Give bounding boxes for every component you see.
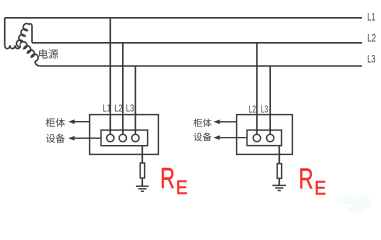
cabinet box (right outer) (237, 115, 293, 155)
terminal L2 right box (253, 134, 260, 141)
wire L3 drop to right box (269, 66, 271, 134)
svg-text:L3: L3 (261, 104, 268, 115)
terminal L2 left box (119, 134, 126, 141)
transformer winding horizontal (5, 45, 21, 49)
faint watermark smudge (335, 196, 372, 213)
wire resistor to ground right (278, 178, 280, 185)
svg-text:L2: L2 (249, 104, 256, 115)
arrowhead equipment right (214, 135, 220, 140)
equipment box (left inner) (101, 130, 148, 146)
arrow equipment label left (73, 137, 101, 139)
svg-text:E: E (176, 178, 188, 199)
resistor RE left (140, 163, 144, 178)
svg-text:L1: L1 (103, 104, 112, 115)
arrowhead cabinet right (214, 120, 220, 125)
transformer winding lower diagonal (20, 42, 38, 61)
terminal L3 left box (132, 134, 139, 141)
svg-text:L3: L3 (126, 104, 135, 115)
label guiti right (cabinet) (193, 118, 211, 127)
svg-text:R: R (160, 163, 175, 195)
label shebei right (equipment) (194, 132, 212, 141)
wire resistor to ground left (141, 178, 143, 186)
ground left (136, 186, 149, 191)
terminal L1 left box (107, 134, 114, 141)
wire L1 drop to left box (109, 18, 111, 135)
arrow cabinet label left (73, 121, 90, 123)
label guiti left (cabinet) (46, 118, 65, 127)
wire winding to L3 (35, 61, 40, 66)
wire winding to L2 (30, 24, 33, 43)
arrow equipment label right (219, 137, 247, 139)
svg-text:L2: L2 (114, 104, 123, 115)
wire L3 drop to left box (134, 66, 136, 134)
transformer winding upper diagonal (17, 24, 30, 48)
ground right (272, 185, 286, 190)
terminal L3 right box (267, 134, 274, 141)
svg-text:L3: L3 (367, 54, 375, 66)
arrowhead cabinet left (68, 119, 74, 124)
wire L1 bus (5, 17, 362, 19)
svg-text:L1: L1 (367, 11, 375, 23)
equipment box (right inner) (247, 130, 282, 146)
arrow cabinet label right (219, 121, 237, 123)
wire L2 drop to right box (256, 43, 258, 135)
arrowhead equipment left (68, 136, 74, 141)
wire L3 bus (40, 65, 362, 67)
label shebei left (equipment) (46, 134, 65, 143)
svg-text:L2: L2 (367, 33, 376, 45)
wire L2 bus (32, 42, 362, 44)
wire left earth lead (141, 146, 143, 163)
wire L2 drop to left box (122, 43, 124, 135)
cabinet box (left outer) (90, 115, 159, 155)
wire right earth lead (278, 146, 280, 164)
wire source left drop (4, 18, 6, 45)
svg-text:R: R (299, 163, 314, 195)
label dianyuan (power source) (39, 49, 58, 58)
svg-text:E: E (315, 179, 327, 200)
resistor RE right (277, 164, 281, 179)
